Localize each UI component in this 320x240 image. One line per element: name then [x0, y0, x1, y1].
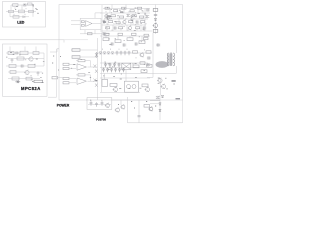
wire — [88, 66, 98, 68]
capacitor C20 — [156, 96, 160, 99]
capacitor C9d — [124, 51, 127, 55]
resistor R1b — [81, 25, 84, 27]
capacitor C11 — [102, 68, 105, 72]
resistor R105 — [13, 16, 19, 19]
wire — [9, 12, 11, 17]
transistor Q9 — [106, 104, 110, 108]
capacitor C101 — [23, 3, 27, 6]
feedback resistor R213 — [78, 60, 85, 62]
wire — [159, 95, 161, 120]
svg-text:POWER: POWER — [57, 103, 70, 107]
dense spot 1 — [107, 16, 111, 18]
capacitor C9c — [120, 51, 123, 55]
transistor Q7 — [158, 78, 162, 82]
transformer T1 shade — [168, 54, 173, 66]
resistor R217 — [52, 77, 58, 79]
ref designator specks — [6, 5, 175, 89]
wire — [112, 25, 114, 31]
wire — [112, 99, 160, 101]
wire — [129, 36, 131, 38]
polarity mark — [90, 99, 103, 101]
resistor R14 — [115, 40, 121, 43]
wire — [126, 25, 128, 31]
wire — [11, 4, 33, 6]
wire — [155, 5, 157, 35]
resistor R11c — [129, 21, 133, 23]
diode D8 — [111, 52, 113, 54]
capacitor C13b — [113, 63, 116, 67]
LED driver block outline — [3, 2, 46, 28]
resistor R205 — [9, 65, 16, 68]
wire — [8, 58, 44, 60]
capacitor C15 — [118, 68, 121, 72]
wire — [50, 49, 59, 52]
power supply outer right edge — [182, 100, 184, 123]
wire — [138, 100, 140, 123]
capacitor C8 — [122, 43, 126, 46]
dense spot 3 — [120, 12, 123, 13]
transformer T1 primary — [167, 53, 169, 66]
transistor Q2 — [123, 20, 126, 23]
diode D2 — [159, 103, 161, 105]
transistor Q210 — [94, 65, 98, 73]
wire — [102, 24, 146, 26]
bridge rectifier BR1 — [122, 63, 131, 69]
capacitor C201 — [15, 51, 19, 54]
resistor R11b — [116, 22, 120, 24]
capacitor C15b — [146, 63, 150, 66]
transformer T1 core — [170, 53, 171, 67]
resistor R21 — [147, 64, 153, 67]
capacitor C10b — [147, 56, 151, 59]
capacitor C5c — [113, 26, 117, 29]
diode D1 — [154, 18, 156, 20]
wire — [100, 62, 148, 64]
wire — [95, 12, 102, 14]
wire — [84, 30, 86, 34]
capacitor C2 — [146, 8, 150, 11]
wire — [106, 19, 108, 25]
resistor R202 — [20, 51, 28, 54]
ref specks — [118, 102, 156, 109]
wire — [125, 5, 127, 9]
svg-text:MPC82A: MPC82A — [21, 86, 41, 91]
resistor R3 — [114, 10, 118, 12]
resistor R208 — [12, 77, 19, 80]
wire — [71, 20, 80, 22]
capacitor C6 — [154, 15, 157, 16]
resistor R18b — [144, 38, 149, 40]
wire — [97, 60, 99, 100]
resistor R10 — [140, 16, 144, 18]
resistor R9 — [132, 15, 136, 17]
transistor Q201 — [29, 57, 33, 61]
resistor R212 — [63, 67, 69, 69]
wire — [125, 70, 127, 82]
wire — [88, 80, 98, 82]
capacitor C203 — [20, 64, 24, 67]
resistor R103 — [19, 10, 25, 13]
wire — [10, 16, 29, 18]
resistor R11a — [109, 21, 113, 23]
capacitor C7 — [110, 42, 114, 45]
wire — [32, 5, 34, 17]
resistor R17 — [72, 49, 80, 52]
resistor R207 — [10, 71, 16, 74]
wire — [69, 82, 76, 84]
wire — [24, 47, 26, 52]
resistor R4 — [122, 7, 127, 9]
capacitor C9e — [128, 51, 131, 55]
transistor Q211 — [94, 79, 98, 87]
transistor Q12 — [149, 107, 153, 111]
svg-text:PS9708: PS9708 — [96, 117, 106, 121]
transistor Q203 — [15, 81, 20, 84]
resistor R15 — [127, 38, 133, 41]
capacitor C5 — [103, 20, 106, 24]
resistor R19b — [140, 62, 145, 64]
diode D6 — [103, 52, 105, 54]
wire — [21, 5, 23, 10]
MPC82A block outline — [3, 44, 48, 96]
wire — [94, 13, 96, 18]
wire — [6, 52, 44, 54]
capacitor C12 — [106, 68, 109, 72]
resistor R16e — [144, 34, 149, 36]
resistor R16d — [132, 33, 137, 35]
svg-text:LED: LED — [17, 21, 25, 25]
diode D7 — [107, 52, 109, 54]
transformer T1 body — [156, 61, 169, 68]
wire — [176, 40, 178, 53]
resistor R16 — [139, 41, 145, 44]
wire — [147, 33, 153, 77]
resistor R19 — [133, 65, 139, 68]
wire — [105, 36, 107, 38]
transistor Q8 — [161, 84, 165, 88]
wire — [6, 65, 44, 67]
wire — [141, 36, 143, 41]
wire — [100, 77, 150, 79]
wire — [71, 23, 80, 25]
wire — [109, 9, 111, 14]
capacitor C15c — [122, 68, 125, 72]
wire — [103, 8, 150, 10]
resistor R203 — [33, 52, 39, 55]
wire — [48, 49, 57, 97]
resistor R215 — [63, 82, 69, 84]
resistor R24 — [144, 105, 150, 108]
wire — [132, 19, 134, 25]
resistor R13 — [103, 38, 109, 41]
capacitor C19 — [138, 116, 141, 117]
wire — [92, 23, 101, 25]
wire — [118, 19, 120, 25]
wire — [128, 97, 183, 123]
resistor R18 — [72, 56, 80, 59]
capacitor C9 — [134, 42, 138, 45]
capacitor C14 — [114, 68, 117, 72]
transistor Q2b — [128, 26, 131, 29]
capacitor C11b — [104, 63, 107, 67]
filter block J1 — [87, 98, 112, 110]
wire — [69, 78, 76, 80]
wire — [58, 77, 64, 79]
wire — [64, 39, 88, 41]
resistor R7 — [111, 15, 116, 17]
wire — [86, 99, 87, 101]
node specks — [52, 56, 61, 70]
value label 10W — [172, 80, 176, 82]
resistor R201 — [8, 52, 14, 55]
capacitor C204 — [37, 71, 40, 75]
resistor R12 — [153, 30, 158, 33]
capacitor C9b — [116, 51, 119, 55]
wire — [150, 103, 160, 105]
wire — [8, 71, 42, 73]
resistor R5 — [130, 10, 134, 12]
capacitor C17 — [95, 102, 98, 106]
wire — [144, 9, 146, 32]
resistor R214 — [63, 78, 69, 80]
wire — [72, 56, 96, 58]
resistor R16b — [105, 33, 110, 35]
resistor R11e — [106, 27, 110, 29]
wire — [8, 78, 40, 80]
transistor Q3 — [153, 23, 157, 27]
wire — [101, 33, 103, 92]
IC U3 — [102, 79, 108, 86]
capacitor C12b — [109, 63, 112, 67]
op-amp U2A — [77, 64, 87, 70]
op-amp U1 — [86, 21, 93, 27]
wire — [80, 33, 110, 35]
capacitor C202 — [11, 58, 14, 62]
wire — [97, 38, 99, 60]
wire — [100, 92, 140, 94]
transistor Q10 — [116, 108, 120, 112]
feedback resistor R216 — [78, 74, 85, 76]
resistor R20 — [141, 70, 147, 73]
resistor R206 — [28, 65, 35, 68]
capacitor C4 — [145, 15, 149, 18]
resistor R16f — [133, 51, 138, 53]
wire — [101, 5, 103, 33]
wire — [100, 30, 152, 32]
wire — [120, 100, 122, 105]
capacitor C3 — [126, 14, 130, 17]
wire — [57, 48, 59, 50]
transistor Q11 — [121, 105, 125, 109]
comparator block outline — [80, 18, 101, 29]
junction ticks — [14, 8, 26, 16]
wire — [176, 66, 178, 74]
wire — [0, 40, 64, 43]
transistor Q202 — [25, 70, 29, 74]
resistor R104 — [29, 10, 34, 12]
resistor R101b — [28, 3, 33, 5]
value label 2A — [176, 98, 181, 99]
wire — [69, 63, 76, 65]
resistor R8 — [120, 16, 124, 18]
wire — [100, 35, 150, 37]
wire — [123, 9, 125, 14]
op-amp U2B — [77, 78, 87, 84]
wire — [137, 9, 139, 14]
power supply outline — [59, 5, 183, 101]
resistor R209 — [26, 77, 32, 80]
wire — [10, 5, 12, 10]
capacitor C14b — [118, 63, 121, 67]
resistor R1a — [81, 21, 84, 23]
wire — [35, 47, 37, 52]
junction ticks — [103, 49, 145, 59]
transistor Q5 — [113, 87, 117, 91]
resistor R101 — [13, 4, 19, 6]
resistor R23 — [142, 84, 148, 87]
wire — [140, 25, 142, 31]
wire — [43, 53, 45, 66]
resistor R16g — [146, 51, 151, 53]
resistor R16c — [118, 33, 123, 35]
resistor R11 — [153, 9, 158, 12]
wire — [150, 100, 160, 102]
wire — [104, 74, 106, 80]
diode D5 — [99, 52, 101, 54]
wire — [71, 49, 98, 51]
capacitor C5d — [142, 26, 146, 29]
wire — [159, 78, 161, 95]
wire — [100, 12, 150, 14]
wire — [117, 36, 119, 40]
capacitor C5b — [135, 20, 139, 23]
LED D101 — [23, 16, 25, 18]
capacitor C1 — [102, 32, 106, 35]
resistor R2 — [105, 7, 109, 9]
wire — [156, 44, 160, 46]
capacitor C18 — [101, 101, 104, 105]
wire — [88, 104, 111, 106]
dense spot 2 — [103, 22, 106, 23]
transformer T1 secondary — [173, 53, 175, 66]
capacitor C16 — [90, 101, 93, 105]
resistor R211 — [63, 63, 69, 65]
wire — [9, 47, 11, 52]
diode D4 — [161, 95, 163, 97]
wire — [111, 5, 113, 9]
resistor R102 — [9, 10, 14, 12]
wire — [100, 66, 152, 68]
transistor Q1 — [105, 14, 108, 17]
wire — [76, 75, 91, 81]
junction ticks — [105, 11, 146, 31]
diode D3 — [159, 109, 161, 111]
resistor R11f — [119, 27, 123, 29]
wire — [100, 73, 176, 75]
wire — [94, 30, 96, 34]
resistor R210 — [34, 80, 43, 82]
wire — [69, 68, 76, 70]
resistor R1c — [88, 33, 93, 35]
wire — [76, 61, 91, 67]
transistor Q4b — [140, 53, 144, 57]
resistor R204 — [17, 57, 24, 60]
capacitor C13 — [110, 68, 113, 72]
resistor R11d — [141, 21, 145, 23]
wire — [6, 11, 36, 13]
resistor R6 — [138, 7, 142, 9]
transistor Q4 — [95, 52, 98, 58]
wire — [104, 18, 148, 20]
relay RL1 — [124, 81, 138, 92]
transistor Q6 — [145, 87, 149, 91]
resistor R11g — [136, 27, 140, 29]
capacitor C10 — [156, 43, 160, 46]
resistor R22 — [110, 84, 117, 87]
wire — [96, 52, 152, 54]
